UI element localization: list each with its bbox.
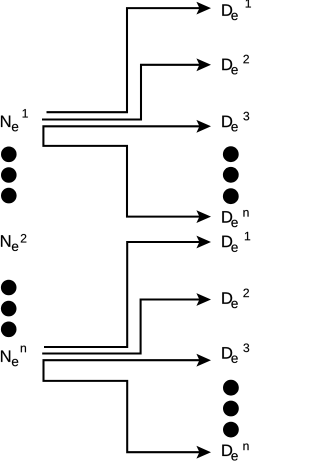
destination label lower D_e^1 [222, 232, 250, 252]
arrowhead to lower D_e^n [196, 446, 211, 459]
arrowhead to lower D_e^1 [196, 236, 211, 249]
right ellipsis dots (between D_e^3 and D_e^n, lower) [223, 380, 239, 396]
destination label D_e^3 [222, 112, 249, 132]
wire N_e^1 to D_e^2 [42, 65, 201, 120]
wire N_e^1 to D_e^3 and D_e^n (hairpin) [43, 126, 200, 216]
destination label D_e^1 [222, 0, 251, 20]
destination label lower D_e^3 [222, 343, 249, 362]
destination label lower D_e^n [222, 444, 248, 461]
node label N_e^n [1, 346, 26, 367]
destination label D_e^2 [222, 55, 249, 75]
arrowhead to lower D_e^2 [196, 293, 211, 306]
destination label lower D_e^2 [222, 289, 249, 309]
arrowhead to D_e^2 [196, 58, 211, 71]
left ellipsis dots (between N_e^2 and N_e^n) [1, 280, 17, 296]
wire N_e^1 to D_e^1 [47, 8, 201, 112]
destination label D_e^n [222, 210, 248, 227]
node label N_e^1 [1, 109, 28, 131]
arrowhead to lower D_e^3 [196, 354, 211, 367]
wire N_e^n to D_e^1 (lower group) [44, 242, 201, 347]
arrowhead to D_e^n [196, 210, 211, 223]
arrowhead to D_e^1 [196, 2, 211, 15]
right ellipsis dots (between D_e^3 and D_e^n, upper) [223, 146, 239, 162]
node label N_e^2 [1, 234, 26, 251]
wire N_e^n to D_e^3 and D_e^n (lower hairpin) [44, 360, 201, 452]
arrowhead to D_e^3 [196, 120, 211, 133]
wire N_e^n to D_e^2 (lower group) [42, 300, 200, 354]
left ellipsis dots (between N_e^1 and N_e^2) [1, 147, 17, 163]
